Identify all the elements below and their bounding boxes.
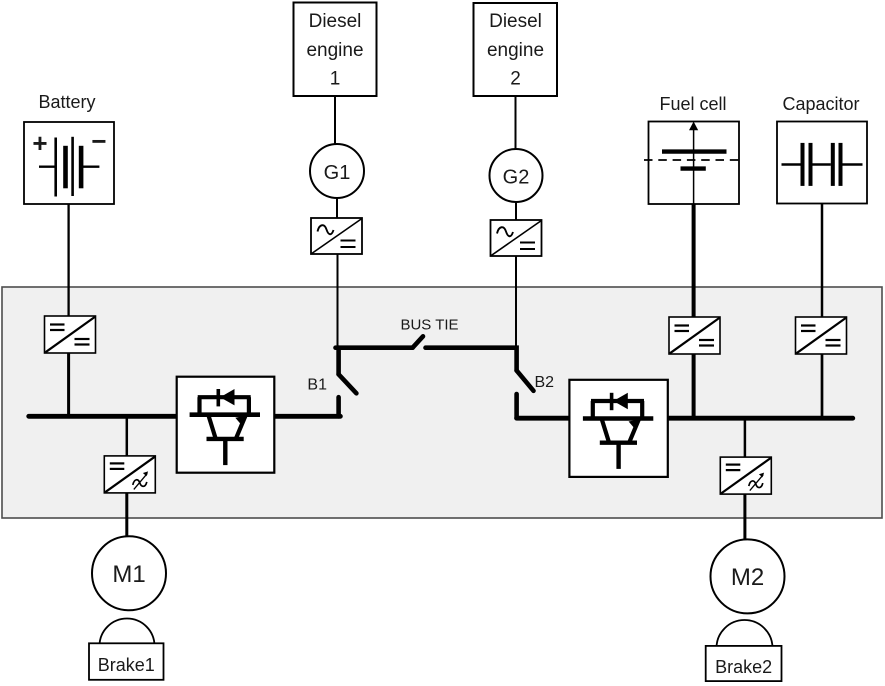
wire bus to M1 drive: [126, 418, 129, 456]
svg-text:1: 1: [330, 69, 341, 90]
svg-text:2: 2: [510, 69, 521, 90]
battery symbol: [32, 126, 106, 197]
port DC bus bar: [29, 414, 341, 419]
breaker B1 upper lead: [336, 348, 341, 375]
svg-text:G2: G2: [503, 167, 530, 189]
wire bus to M2 drive: [744, 420, 747, 457]
motor M1: [92, 536, 166, 610]
capacitor box: [777, 122, 867, 204]
wire capacitor to DC/DC: [821, 204, 824, 318]
svg-text:BUS TIE: BUS TIE: [400, 317, 458, 334]
svg-text:B2: B2: [535, 374, 555, 391]
inverter module 2 IGBT symbol: [583, 393, 653, 469]
capacitor symbol: [782, 143, 863, 186]
svg-text:Diesel: Diesel: [309, 11, 362, 32]
svg-text:M1: M1: [112, 561, 145, 588]
wire diesel1 to G1: [334, 96, 336, 144]
brake 2 coupling arc: [717, 620, 773, 648]
AC/DC converter (G2): [491, 220, 542, 256]
svg-text:−: −: [91, 126, 106, 156]
Brake2 box: [706, 646, 782, 681]
svg-text:Brake2: Brake2: [715, 657, 772, 677]
svg-text:Diesel: Diesel: [489, 11, 542, 32]
svg-text:Fuel cell: Fuel cell: [659, 94, 726, 114]
DC/DC converter (battery): [45, 316, 96, 353]
generator G1: [310, 144, 364, 198]
svg-text:+: +: [32, 128, 47, 158]
wire G2 to converter: [515, 202, 517, 220]
bus tie right segment: [426, 348, 517, 371]
inverter module 1 box: [177, 377, 275, 473]
brake 1 coupling arc: [100, 618, 155, 646]
wire diesel2 to G2: [515, 96, 517, 149]
wire fuel cell to DC/DC: [692, 204, 696, 317]
inverter module 2 box: [569, 380, 667, 477]
generator G2: [490, 149, 543, 202]
wire G1 to converter: [336, 198, 338, 218]
DC/AC drive converter M2: [720, 457, 771, 494]
battery box: [24, 122, 114, 204]
wire converter to bus tie: [337, 254, 339, 346]
inverter module 1 IGBT symbol: [190, 389, 260, 465]
wire battery to DC/DC: [67, 204, 69, 316]
wire DC/DC to port bus: [67, 353, 70, 416]
starboard DC bus bar: [517, 416, 853, 421]
DC/DC converter (fuel cell): [669, 317, 720, 354]
svg-text:Capacitor: Capacitor: [782, 94, 859, 114]
bus tie switch blade: [413, 336, 423, 347]
wire DC/DC to starboard bus: [821, 354, 824, 418]
svg-text:G1: G1: [324, 162, 351, 184]
breaker B2 lower stub: [514, 394, 519, 418]
svg-text:M2: M2: [731, 564, 764, 591]
breaker B2 blade: [517, 371, 534, 391]
DC/AC drive converter M1: [104, 456, 155, 493]
breaker B1 lower stub: [336, 397, 341, 416]
svg-text:Battery: Battery: [38, 92, 95, 112]
svg-text:engine: engine: [487, 40, 544, 61]
fuel cell symbol: [644, 122, 744, 205]
wire M2 drive to motor M2: [743, 494, 746, 542]
fuel cell box: [649, 122, 740, 205]
Diesel engine 2 box: [474, 3, 558, 96]
bus tie left segment: [336, 345, 413, 350]
svg-text:engine: engine: [306, 40, 363, 61]
wire DC/DC to starboard bus: [692, 354, 696, 418]
DC distribution zone (gray area): [2, 287, 882, 518]
Brake1 box: [89, 643, 164, 680]
motor M2: [711, 539, 785, 613]
svg-text:B1: B1: [307, 377, 327, 394]
AC/DC converter (G1): [311, 218, 362, 254]
wire M1 drive to motor M1: [125, 493, 128, 537]
DC/DC converter (capacitor): [796, 317, 847, 354]
svg-text:Brake1: Brake1: [98, 655, 155, 675]
breaker B1 blade: [339, 374, 357, 393]
Diesel engine 1 box: [294, 3, 377, 97]
wire converter to bus tie: [515, 256, 517, 346]
